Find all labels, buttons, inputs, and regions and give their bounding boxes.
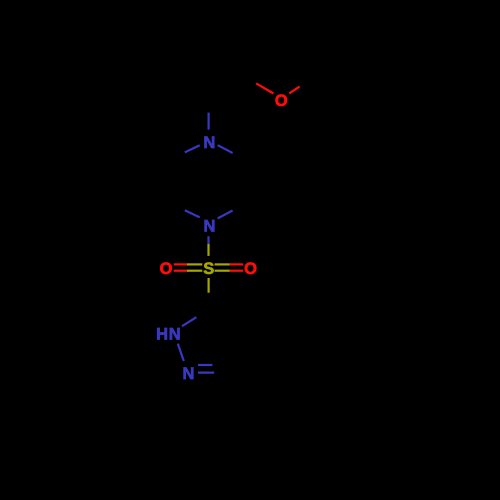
wire N4-C1' blue half (chain to piperazine) bbox=[208, 113, 210, 130]
wire N4-C ring top-right blue half bbox=[218, 145, 233, 153]
wire N1-S blue half bbox=[207, 236, 209, 244]
svg-text:H: H bbox=[156, 326, 168, 344]
svg-text:O: O bbox=[275, 92, 288, 110]
wire N4-C ring top-left blue half bbox=[185, 145, 200, 152]
wire S=O right lower line red half bbox=[230, 270, 243, 272]
wire N2pz=C3 main line blue half bbox=[198, 372, 214, 374]
svg-text:O: O bbox=[160, 260, 173, 278]
wire S=O left upper line red half bbox=[174, 263, 187, 265]
wire S=O left upper line olive half bbox=[187, 263, 202, 265]
wire N1pz-C5 blue half bbox=[182, 317, 196, 326]
svg-text:O: O bbox=[244, 260, 257, 278]
wire S=O right upper line olive half bbox=[215, 263, 230, 265]
wire N1-C ring bottom-left blue half bbox=[185, 210, 200, 217]
wire N1-C ring bottom-right blue half bbox=[218, 211, 233, 219]
wire N2pz=C3 inner line blue half bbox=[198, 364, 212, 366]
svg-text:N: N bbox=[169, 326, 181, 344]
svg-text:N: N bbox=[183, 365, 195, 383]
wire S-C5 olive half (to pyrazole) bbox=[208, 278, 210, 293]
wire S=O left lower line red half bbox=[174, 270, 187, 272]
wire O-CH3 red half bbox=[289, 87, 299, 94]
wire N1pz-N2pz blue bond bbox=[178, 344, 184, 361]
wire N1-S olive half bbox=[207, 244, 209, 256]
wire S=O right upper line red half bbox=[230, 263, 243, 265]
wire S=O right lower line olive half bbox=[215, 270, 230, 272]
wire C2'-O red half (methoxyethyl chain) bbox=[256, 83, 273, 93]
wire S=O left lower line olive half bbox=[187, 270, 202, 272]
svg-text:N: N bbox=[203, 134, 215, 152]
svg-text:N: N bbox=[204, 218, 216, 236]
svg-text:S: S bbox=[203, 260, 214, 278]
